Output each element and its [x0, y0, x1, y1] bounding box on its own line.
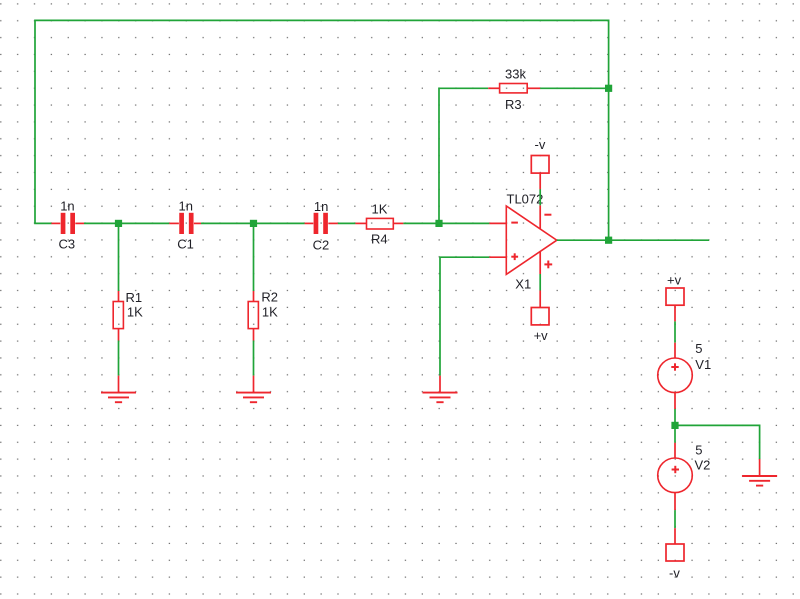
wire -v port to op-amp: [539, 189, 541, 205]
svg-text:5: 5: [695, 341, 702, 356]
wire C1 to C2: [201, 222, 305, 224]
wire +v port to V1: [674, 321, 676, 342]
svg-text:C3: C3: [59, 237, 76, 252]
capacitor C2: [305, 213, 338, 234]
wire input row: left corner to C3: [34, 222, 51, 224]
svg-text:TL072: TL072: [507, 192, 544, 207]
svg-text:1K: 1K: [372, 202, 388, 217]
wire R1 branch from node down: [118, 223, 120, 291]
wire C3 to C1: [84, 222, 169, 224]
wire op-amp to +v port: [539, 274, 541, 291]
wire C2 to R4: [338, 222, 356, 224]
power port +v (right, above V1): [666, 288, 684, 321]
svg-text:-v: -v: [669, 565, 680, 580]
voltage source V2: [658, 443, 693, 510]
op-amp X1 (TL072): [489, 205, 556, 274]
resistor R1: [113, 291, 123, 341]
node: R4 / op-amp minus input / feedback: [435, 220, 442, 227]
ground (op-amp plus input): [423, 376, 458, 403]
wire plus input branch down to ground: [440, 257, 489, 375]
wire feedback vertical from input node up to R3 row: [439, 88, 488, 223]
wire R2 to ground: [253, 341, 255, 376]
node: C3/C1 junction with R1: [115, 220, 122, 227]
wire V2 to -v port: [674, 510, 676, 528]
wire R1 to ground: [118, 341, 120, 376]
wire V1 to node: [674, 409, 676, 422]
wire feedback loop: output top to input (left vertical, top horizontal, right vertical): [35, 20, 609, 240]
svg-text:C2: C2: [313, 237, 330, 252]
svg-text:+v: +v: [534, 328, 549, 343]
svg-text:-v: -v: [535, 137, 546, 152]
svg-text:1n: 1n: [179, 198, 193, 213]
svg-text:+v: +v: [667, 273, 682, 288]
svg-text:33k: 33k: [505, 66, 526, 81]
ground (under R2): [236, 376, 271, 403]
svg-text:V1: V1: [695, 357, 711, 372]
ground (under R1): [101, 376, 136, 403]
node: V1/V2 midpoint: [671, 422, 678, 429]
voltage source V1: [658, 343, 693, 409]
svg-text:5: 5: [695, 442, 702, 457]
capacitor C1: [169, 213, 201, 234]
wire node to V2: [674, 429, 676, 443]
svg-text:X1: X1: [515, 277, 531, 292]
power port -v (right, below V2): [666, 528, 684, 561]
svg-text:1K: 1K: [262, 305, 278, 320]
node: op-amp output: [605, 237, 612, 244]
wire op-amp output: [557, 239, 709, 241]
resistor R4: [355, 218, 403, 229]
wire R2 branch from node down: [253, 223, 255, 291]
svg-text:R1: R1: [126, 290, 143, 305]
svg-text:R2: R2: [261, 290, 278, 305]
capacitor C3: [51, 213, 84, 234]
wire R4 to op-amp minus input (through node): [403, 222, 489, 224]
wire node right to ground: [675, 425, 760, 459]
resistor R2: [248, 291, 258, 341]
node: C1/C2 junction with R2: [250, 220, 257, 227]
svg-text:1n: 1n: [60, 199, 74, 214]
svg-text:1K: 1K: [127, 305, 143, 320]
svg-text:R3: R3: [505, 97, 522, 112]
ground (right, supply midpoint): [742, 459, 777, 486]
node: R3 / top feedback wire: [605, 85, 612, 92]
wire R3 to right vertical: [540, 87, 608, 89]
power port +v (op-amp bottom): [531, 291, 549, 325]
svg-text:1n: 1n: [314, 199, 328, 214]
svg-text:C1: C1: [177, 236, 194, 251]
resistor R3: [488, 84, 540, 93]
power port -v (op-amp top): [531, 156, 549, 190]
svg-text:R4: R4: [371, 231, 388, 246]
svg-text:V2: V2: [695, 458, 711, 473]
